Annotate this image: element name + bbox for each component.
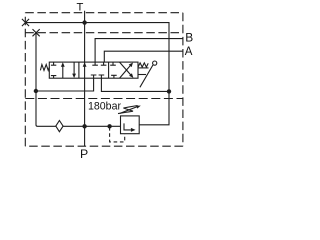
dashed gallery y=32.7	[25, 32, 183, 34]
valve square 3 blocked port top-left	[110, 62, 116, 65]
node junction dot T drop	[167, 89, 171, 93]
wire T/P vertical line x=84.6	[84, 11, 86, 146]
valve square 3 blocked port bottom-left	[111, 75, 117, 78]
node junction dot T gallery	[82, 20, 86, 24]
valve square 2 blocked ports top	[92, 62, 106, 65]
wire left vertical from X2 down to P gallery	[36, 33, 56, 127]
node junction dot left vertical / under-valve line	[34, 89, 38, 93]
dashed drain gallery y=98.5	[25, 98, 183, 100]
valve square 1 down arrow	[73, 62, 75, 74]
svg-text:T: T	[77, 2, 84, 14]
plugged port X2	[33, 29, 40, 36]
wire P gallery right of diamond to relief valve	[63, 125, 120, 127]
svg-text:A: A	[185, 46, 193, 58]
valve square 3 crossed arrow down-right	[120, 62, 132, 76]
svg-text:P: P	[80, 147, 88, 160]
valve square 1 blocked port top-left	[51, 62, 56, 65]
wire A riser and gallery to port A	[104, 51, 183, 62]
valve square 1 blocked port bottom-left	[51, 76, 56, 79]
plugged port X1 on left border	[22, 19, 29, 26]
node junction dot P gallery / P drop	[82, 124, 86, 128]
valve hand lever pivot arm	[138, 74, 146, 76]
valve square 2 blocked ports bottom	[91, 75, 104, 78]
valve hand lever	[140, 65, 153, 87]
relief valve adjustment arrow	[120, 107, 138, 114]
svg-text:B: B	[185, 30, 193, 44]
svg-text:180bar: 180bar	[88, 101, 121, 113]
valve right return spring	[138, 63, 148, 67]
check diamond on P gallery	[56, 121, 63, 132]
wire under-valve right line to T drop	[101, 78, 169, 91]
relief valve RV1 body	[121, 116, 140, 134]
valve square 3 crossed arrow up-right	[120, 64, 132, 78]
wire B riser and gallery to port B	[95, 39, 183, 63]
valve square 2 open-center flow arrowhead	[83, 62, 87, 66]
relief valve spring	[118, 106, 138, 114]
node junction dot P gallery / pilot line	[107, 124, 111, 128]
relief valve pilot drain (dashed)	[110, 127, 125, 142]
valve square 1 up arrow	[62, 66, 64, 78]
relief valve internal flow path	[124, 123, 131, 129]
directional valve U1 body	[49, 62, 138, 78]
manifold enclosure (dashed border)	[25, 13, 183, 147]
wire T gallery y=22.6 with right drop to relief valve	[26, 23, 170, 125]
wire under-valve left line to valve port	[36, 78, 94, 91]
valve left return spring	[40, 65, 49, 71]
